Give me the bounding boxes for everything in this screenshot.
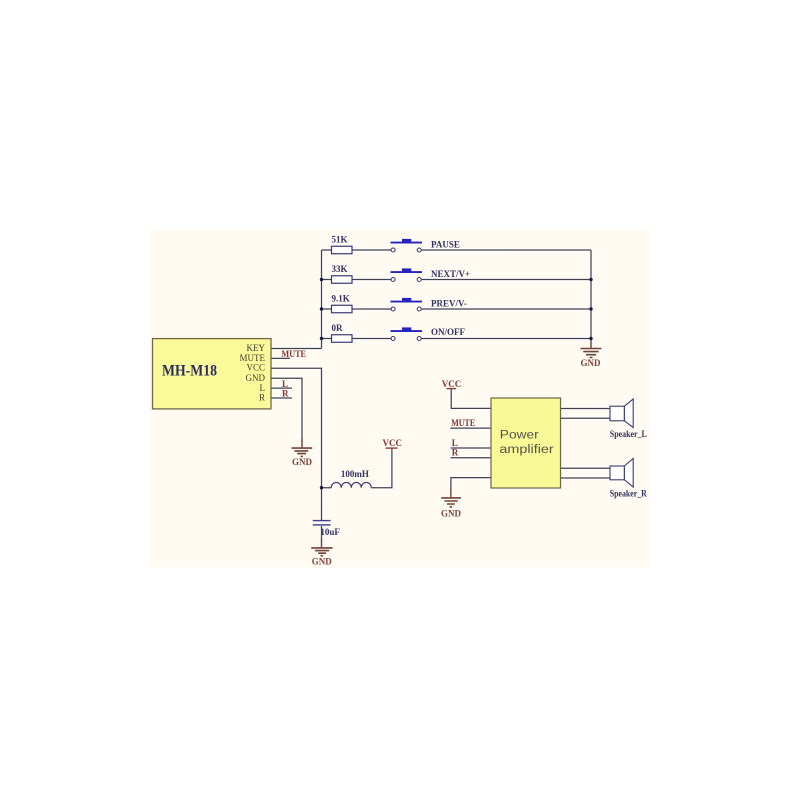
svg-text:MUTE: MUTE — [451, 418, 475, 428]
svg-text:R: R — [259, 393, 265, 403]
svg-text:MUTE: MUTE — [240, 353, 266, 363]
svg-text:Speaker_L: Speaker_L — [610, 429, 647, 439]
svg-text:51K: 51K — [332, 235, 348, 245]
svg-text:VCC: VCC — [442, 379, 462, 389]
svg-text:R: R — [282, 389, 289, 399]
svg-text:GND: GND — [581, 358, 602, 368]
svg-text:100mH: 100mH — [341, 469, 369, 479]
svg-text:GND: GND — [246, 373, 266, 383]
svg-text:amplifier: amplifier — [499, 442, 553, 456]
svg-text:L: L — [282, 379, 288, 389]
svg-text:Speaker_R: Speaker_R — [610, 489, 647, 499]
svg-text:Power: Power — [500, 428, 539, 442]
svg-text:10uF: 10uF — [320, 527, 340, 537]
svg-text:KEY: KEY — [247, 343, 266, 353]
svg-text:9.1K: 9.1K — [332, 294, 350, 304]
svg-text:VCC: VCC — [246, 363, 265, 373]
svg-text:MUTE: MUTE — [282, 349, 307, 359]
svg-text:VCC: VCC — [383, 438, 403, 448]
svg-text:L: L — [260, 383, 266, 393]
svg-text:PREV/V-: PREV/V- — [431, 298, 467, 308]
svg-text:0R: 0R — [332, 323, 344, 333]
svg-text:NEXT/V+: NEXT/V+ — [431, 269, 470, 279]
svg-text:33K: 33K — [332, 264, 348, 274]
svg-text:ON/OFF: ON/OFF — [431, 327, 465, 337]
svg-text:GND: GND — [441, 509, 462, 519]
svg-text:PAUSE: PAUSE — [431, 239, 460, 249]
svg-text:GND: GND — [312, 557, 333, 567]
svg-text:GND: GND — [292, 457, 313, 467]
svg-text:MH-M18: MH-M18 — [162, 363, 217, 380]
svg-text:R: R — [452, 448, 459, 458]
svg-text:L: L — [452, 438, 458, 448]
